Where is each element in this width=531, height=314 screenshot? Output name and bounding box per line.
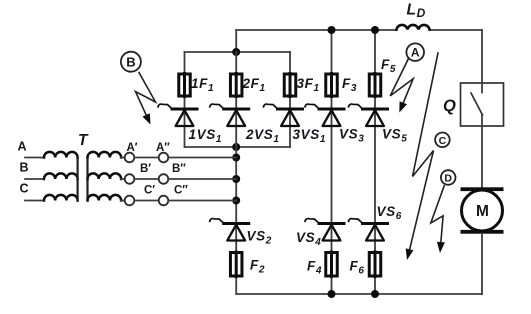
transformer primary winding C xyxy=(44,195,78,201)
fuse F4 xyxy=(326,252,338,277)
thyristor VS5 xyxy=(349,104,388,126)
svg-text:C″: C″ xyxy=(174,185,188,197)
svg-text:M: M xyxy=(476,203,489,220)
switch Q xyxy=(461,83,504,126)
wire terminal B' to B'' xyxy=(134,178,158,180)
svg-text:B′: B′ xyxy=(140,163,151,175)
node phase A tap xyxy=(232,154,240,162)
node phase C tap xyxy=(232,197,240,205)
lightning arrow A xyxy=(390,59,413,113)
wire branch 1 vertical xyxy=(184,52,186,147)
transformer secondary winding C xyxy=(88,195,122,201)
node phase B tap xyxy=(232,175,240,183)
svg-text:A: A xyxy=(411,46,420,60)
wire switch Q to motor xyxy=(481,126,483,188)
svg-text:A′: A′ xyxy=(127,142,138,154)
thyristor VS2 xyxy=(210,219,249,241)
svg-text:C′: C′ xyxy=(144,185,155,197)
svg-text:A: A xyxy=(18,140,27,154)
node column C bottom xyxy=(371,290,379,298)
thyristor 2VS1 xyxy=(210,104,249,126)
thyristor VS3 xyxy=(305,104,344,126)
wire secondary B to terminal B' xyxy=(121,178,125,180)
terminal C' xyxy=(125,196,135,206)
transformer secondary winding B xyxy=(88,173,122,179)
fuse F5 xyxy=(369,74,381,97)
wire terminal C' to C'' xyxy=(134,200,158,202)
fuse F6 xyxy=(369,252,381,277)
wire secondary C to terminal C' xyxy=(121,200,125,202)
wire phase B input xyxy=(25,178,44,180)
node group bottom xyxy=(232,143,240,151)
fault marker C xyxy=(435,133,450,148)
svg-text:Q: Q xyxy=(443,97,456,115)
wire parallel group top rail xyxy=(185,51,291,53)
node column B top xyxy=(328,26,336,34)
transformer secondary winding A xyxy=(88,152,122,158)
wire terminal A'' to node xyxy=(168,157,236,159)
wire secondary A to terminal A' xyxy=(121,157,125,159)
lightning arrow B xyxy=(136,73,156,125)
terminal C'' xyxy=(159,196,169,206)
lightning arrow C xyxy=(406,53,438,260)
svg-text:B: B xyxy=(126,54,135,69)
fuse 3F1 xyxy=(284,74,296,97)
wire terminal A' to A'' xyxy=(134,157,158,159)
wire top DC bus xyxy=(236,29,482,31)
svg-text:C: C xyxy=(439,135,447,147)
thyristor 3VS1 xyxy=(264,104,303,126)
wire terminal C'' to node xyxy=(168,200,236,202)
wire column B (top bus to bottom bus) xyxy=(331,30,333,294)
wire branch 3 vertical xyxy=(289,52,291,147)
svg-text:D: D xyxy=(444,173,452,185)
wire bus drop into parallel group xyxy=(235,30,237,52)
wire phase-A column (group bottom through VS2 F2 to bus) xyxy=(235,52,237,294)
terminal A'' xyxy=(159,153,169,163)
fuse F2 xyxy=(230,252,242,277)
svg-text:B: B xyxy=(20,161,29,175)
transformer primary winding A xyxy=(44,152,78,158)
svg-text:B″: B″ xyxy=(172,163,186,175)
svg-text:A″: A″ xyxy=(156,142,170,154)
node column C top xyxy=(371,26,379,34)
fault marker D xyxy=(441,170,456,185)
node group top xyxy=(232,48,240,56)
fault marker B xyxy=(121,52,141,72)
wire phase A input xyxy=(25,157,44,159)
fuse 1F1 xyxy=(179,74,191,97)
transformer primary winding B xyxy=(44,173,78,179)
thyristor 1VS1 xyxy=(158,104,197,126)
fault marker A xyxy=(406,43,424,61)
wire column C (top bus to bottom bus) xyxy=(374,30,376,294)
motor M xyxy=(461,187,504,233)
wire terminal B'' to node xyxy=(168,178,236,180)
wire transformer secondary wye link xyxy=(86,158,88,201)
svg-text:T: T xyxy=(78,132,89,149)
thyristor VS4 xyxy=(305,219,344,241)
svg-text:C: C xyxy=(20,182,29,196)
terminal B'' xyxy=(159,174,169,184)
wire bottom DC bus xyxy=(237,293,483,295)
terminal A' xyxy=(125,153,135,163)
thyristor VS6 xyxy=(349,219,388,241)
fuse 2F1 xyxy=(230,74,242,97)
terminal B' xyxy=(125,174,135,184)
wire right column top (bus corner to switch Q) xyxy=(481,30,483,83)
wire parallel group bottom rail xyxy=(185,146,291,148)
inductor LD xyxy=(397,25,430,30)
wire transformer primary wye link xyxy=(76,158,78,201)
wire motor to bottom bus xyxy=(481,234,483,294)
lightning arrow D xyxy=(431,186,445,253)
fuse F3 xyxy=(326,74,338,97)
wire phase C input xyxy=(25,200,44,202)
node column B bottom xyxy=(328,290,336,298)
